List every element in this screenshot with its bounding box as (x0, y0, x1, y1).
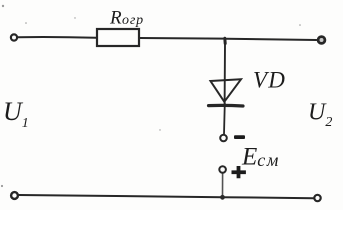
plus sign of Eсм (232, 166, 246, 178)
svg-text:VD: VD (253, 68, 286, 93)
scan speckles (1, 5, 301, 187)
terminal input top-left (11, 34, 17, 40)
wire top-left to resistor (18, 36, 96, 39)
minus sign of Eсм (234, 135, 245, 139)
diode VD cathode bar (209, 104, 244, 108)
node B junction dot on bottom rail (220, 195, 225, 200)
svg-text:Eсм: Eсм (241, 144, 280, 171)
wire diode to minus terminal (223, 103, 226, 135)
bottom rail wire (19, 195, 314, 198)
terminal output bottom-right (314, 195, 320, 201)
wire plus terminal to bottom rail (222, 173, 224, 195)
terminal plus of Eсм (219, 166, 226, 173)
diode VD triangle (211, 79, 242, 102)
svg-text:U1: U1 (3, 97, 29, 131)
svg-text:U2: U2 (308, 100, 332, 131)
wire resistor to node A (140, 37, 224, 40)
terminal input bottom-left (11, 192, 18, 199)
resistor Rогр body (97, 29, 139, 46)
node A junction tick (223, 38, 226, 43)
terminal output top-right (318, 37, 325, 44)
wire node A to right terminal (227, 39, 317, 40)
terminal minus of Eсм (220, 135, 227, 142)
svg-text:Rогр: Rогр (109, 8, 144, 29)
wire node A down to diode (224, 44, 226, 106)
